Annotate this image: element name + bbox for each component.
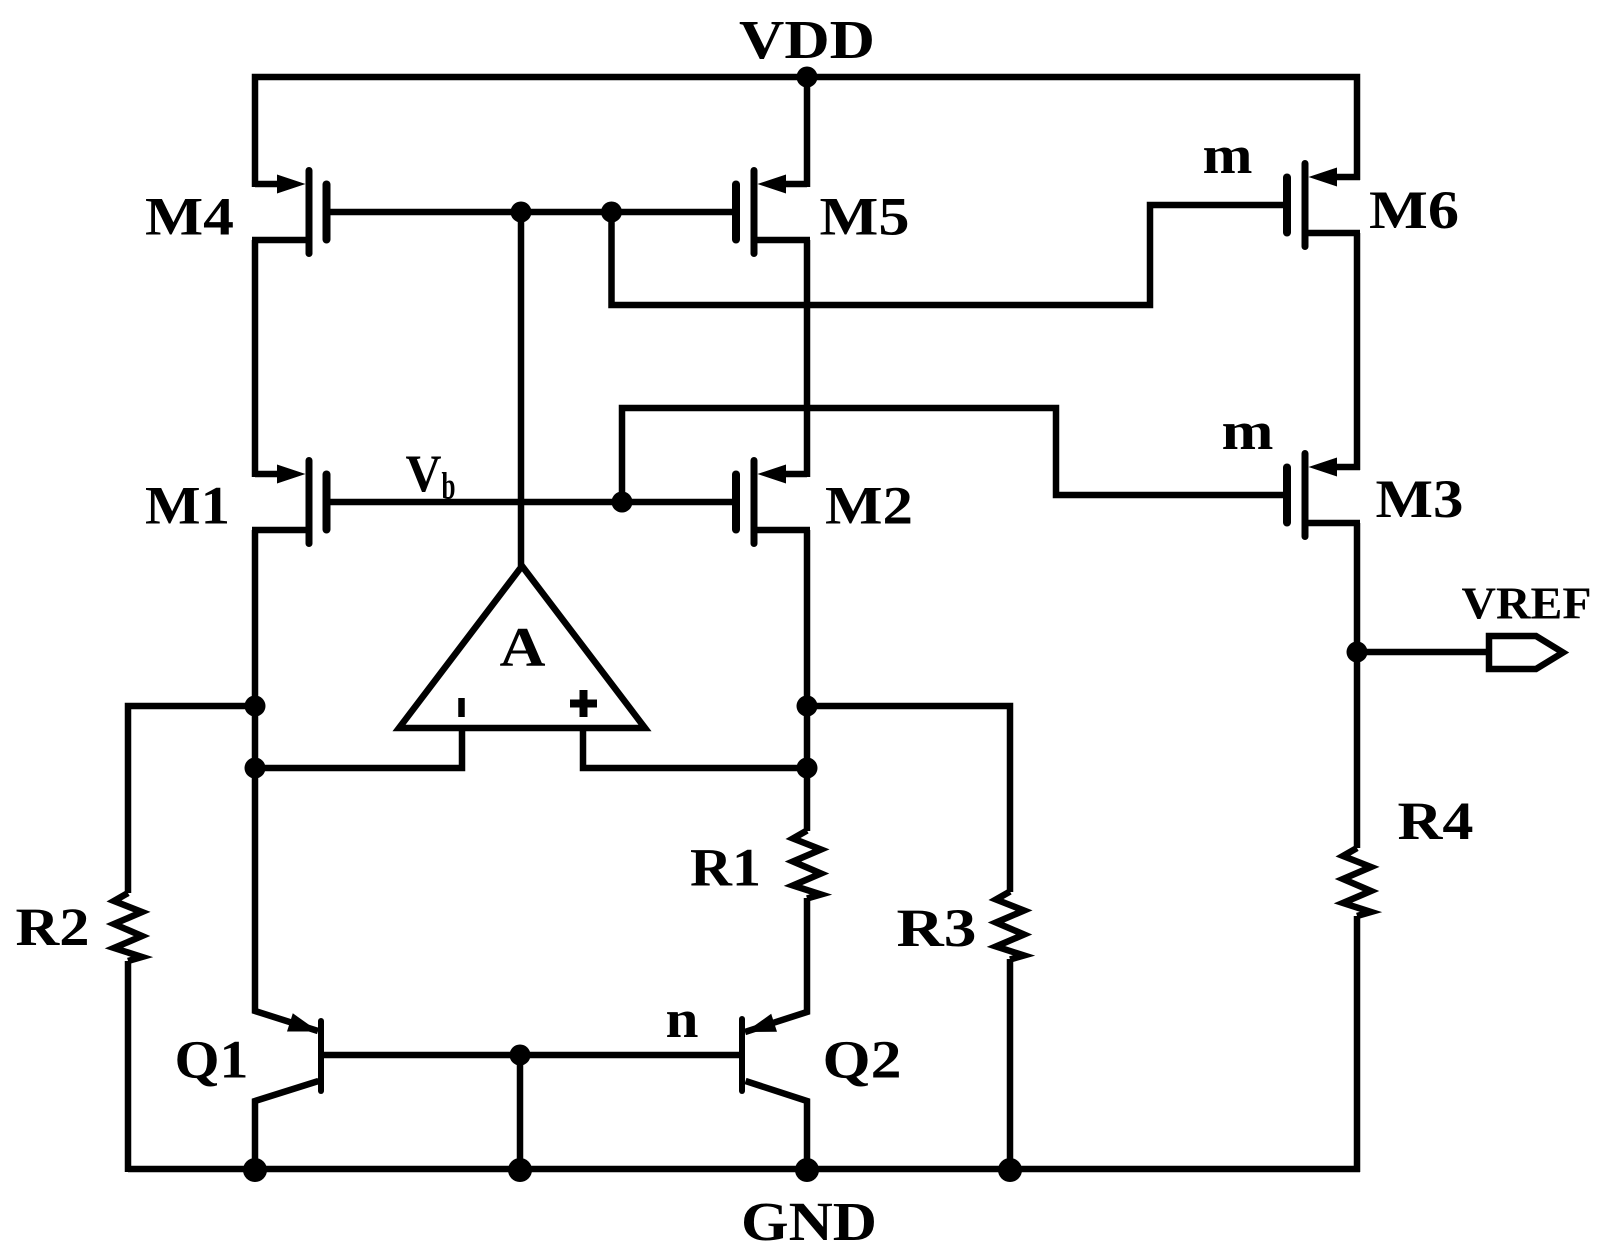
wire VDD to M5 source bbox=[804, 77, 811, 187]
svg-text:M1: M1 bbox=[145, 476, 230, 536]
wire gate line to M6 gate bbox=[612, 205, 1284, 305]
svg-text:n: n bbox=[666, 989, 699, 1049]
transistor M4 (PMOS, source lead with arrow) bbox=[252, 171, 327, 254]
transistor M6 (PMOS, mirrored, top right) bbox=[1287, 164, 1360, 247]
wire Vb line M1 gate to M2 gate bbox=[330, 499, 732, 506]
svg-text:R1: R1 bbox=[690, 838, 761, 898]
transistor M1 (PMOS) bbox=[252, 461, 327, 544]
op-amp U1 (triangle A, apex up) bbox=[399, 566, 645, 728]
svg-text:M6: M6 bbox=[1369, 180, 1459, 240]
wire VDD rail with end drops to M4 and M6 sources bbox=[255, 77, 1357, 187]
node junction dot gate line / M6 gate branch bbox=[601, 202, 622, 223]
svg-text:Q1: Q1 bbox=[175, 1030, 249, 1090]
wire M1 drain down to Q1 emitter bbox=[255, 530, 318, 1031]
transistor M5 (PMOS, mirrored) bbox=[736, 171, 810, 254]
svg-text:Q2: Q2 bbox=[823, 1030, 902, 1090]
wire op-amp output up to gate line bbox=[518, 212, 525, 566]
svg-text:A: A bbox=[500, 617, 547, 679]
wire GND rail bbox=[128, 1166, 1360, 1173]
node junction dot GND at Q1 bbox=[243, 1158, 267, 1182]
wire Vb node to M3 gate bbox=[622, 408, 1283, 502]
svg-text:VREF: VREF bbox=[1462, 579, 1592, 629]
svg-text:VDD: VDD bbox=[739, 9, 875, 70]
wire VREF lead bbox=[1357, 649, 1489, 656]
wire R1 bottom to Q2 collector bbox=[745, 898, 807, 1032]
svg-text:M4: M4 bbox=[145, 187, 234, 247]
wire M3 drain down to R4 top bbox=[1354, 523, 1361, 848]
svg-text:R4: R4 bbox=[1398, 791, 1474, 851]
node junction dot Vb line to M3 gate branch bbox=[612, 492, 633, 513]
node junction dot gate line / op-amp output bbox=[511, 202, 532, 223]
transistor M2 (PMOS, mirrored) bbox=[736, 461, 810, 544]
port VREF output pointer bbox=[1489, 636, 1563, 669]
svg-text:m: m bbox=[1222, 401, 1274, 461]
node junction dot left node to op-amp minus input bbox=[245, 758, 266, 779]
node junction dot on VDD rail above M5 bbox=[797, 67, 818, 88]
node junction dot GND at base branch bbox=[508, 1158, 532, 1182]
node junction dot right node to R3 bbox=[797, 696, 818, 717]
transistor M3 (PMOS, mirrored, right) bbox=[1287, 454, 1360, 537]
wire op-amp plus input to right node bbox=[583, 728, 807, 768]
resistor R2 bbox=[114, 893, 142, 961]
wire base node to GND rail bbox=[517, 1055, 524, 1169]
node junction dot VREF tap bbox=[1347, 642, 1368, 663]
resistor R1 bbox=[793, 831, 821, 899]
wire left node to op-amp minus input bbox=[255, 728, 462, 768]
svg-text:GND: GND bbox=[741, 1191, 877, 1252]
transistor Q1 (PNP BJT) bbox=[255, 1013, 321, 1172]
transistor Q2 (PNP BJT, mirrored) bbox=[742, 1014, 807, 1172]
wire R2 bottom to GND rail bbox=[125, 961, 132, 1172]
node junction dot right node to op-amp plus input bbox=[797, 758, 818, 779]
node junction dot left node to R2 bbox=[245, 696, 266, 717]
wire left node to R2 top bbox=[128, 706, 255, 893]
svg-text:R3: R3 bbox=[897, 898, 977, 958]
svg-text:m: m bbox=[1203, 125, 1253, 185]
svg-text:R2: R2 bbox=[16, 897, 90, 957]
wire R3 bottom to GND rail bbox=[1007, 959, 1014, 1169]
wire gate line M4 to M5 bbox=[330, 209, 732, 216]
svg-text:M2: M2 bbox=[825, 476, 913, 536]
node junction dot base line bbox=[510, 1045, 531, 1066]
wire right node to R3 top bbox=[807, 706, 1010, 892]
node junction dot GND at R3 bbox=[998, 1158, 1022, 1182]
resistor R4 bbox=[1343, 848, 1371, 916]
wire M4 drain to M1 source bbox=[252, 240, 259, 477]
wire M5 drain to M2 source bbox=[804, 240, 811, 477]
wire base line Q1 to Q2 bbox=[321, 1052, 742, 1059]
svg-text:V: V bbox=[406, 445, 442, 503]
svg-text:M3: M3 bbox=[1376, 469, 1464, 529]
wire R4 bottom to GND rail bbox=[1354, 916, 1361, 1172]
svg-text:b: b bbox=[442, 466, 456, 508]
svg-text:M5: M5 bbox=[820, 187, 910, 247]
wire M6 drain to M3 source bbox=[1354, 233, 1361, 470]
wire M2 drain down to R1 top bbox=[804, 530, 811, 831]
resistor R3 bbox=[996, 892, 1024, 960]
node junction dot GND at Q2 bbox=[795, 1158, 819, 1182]
